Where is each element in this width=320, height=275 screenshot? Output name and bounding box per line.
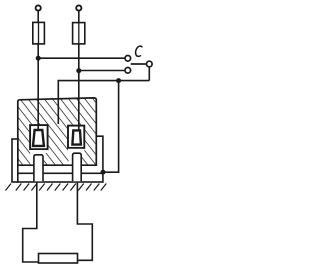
junction dot J2 — [76, 68, 81, 73]
wire T1 to fuse F1 — [37, 11, 39, 23]
wire to switch top contact — [38, 57, 125, 59]
junction dot J1 — [36, 56, 41, 61]
wire F1 down to left coil — [37, 44, 39, 130]
switch top contact — [125, 56, 131, 62]
wire hinge down — [148, 67, 150, 81]
terminal T2 — [76, 5, 81, 10]
right coil window W2 — [68, 126, 84, 148]
right plunger P2 — [73, 153, 82, 181]
wire to armature — [103, 81, 119, 173]
switch blade — [131, 63, 147, 65]
fuse F1 — [33, 22, 45, 44]
left plunger P1 — [34, 155, 43, 182]
wire to switch bottom contact — [79, 70, 125, 72]
wire right plunger down — [77, 182, 92, 261]
right plunger slot — [68, 149, 84, 152]
right bracket step — [96, 136, 103, 173]
wire switch to center leg — [58, 81, 149, 124]
armature plate — [17, 173, 103, 182]
ground hatching under plate — [6, 184, 107, 191]
left plunger slot — [30, 150, 47, 153]
fuse F2 — [73, 23, 85, 44]
left coil window W1 — [30, 125, 47, 149]
junction dot J4 — [101, 170, 106, 175]
wire T2 to fuse F2 — [78, 11, 80, 23]
switch hinge — [147, 61, 153, 67]
wire F2 down to right coil — [78, 44, 80, 130]
wire left plunger down — [23, 182, 40, 263]
right coil winding cross-section — [72, 130, 81, 144]
terminal T1 — [36, 5, 41, 10]
left bracket — [12, 139, 18, 182]
electromagnet yoke body (hatched) — [18, 98, 97, 165]
label L (script) — [136, 46, 143, 56]
left coil winding cross-section — [33, 130, 44, 146]
switch bottom contact — [125, 68, 131, 74]
junction dot J3 — [116, 78, 121, 83]
resistor R1 — [39, 254, 78, 264]
